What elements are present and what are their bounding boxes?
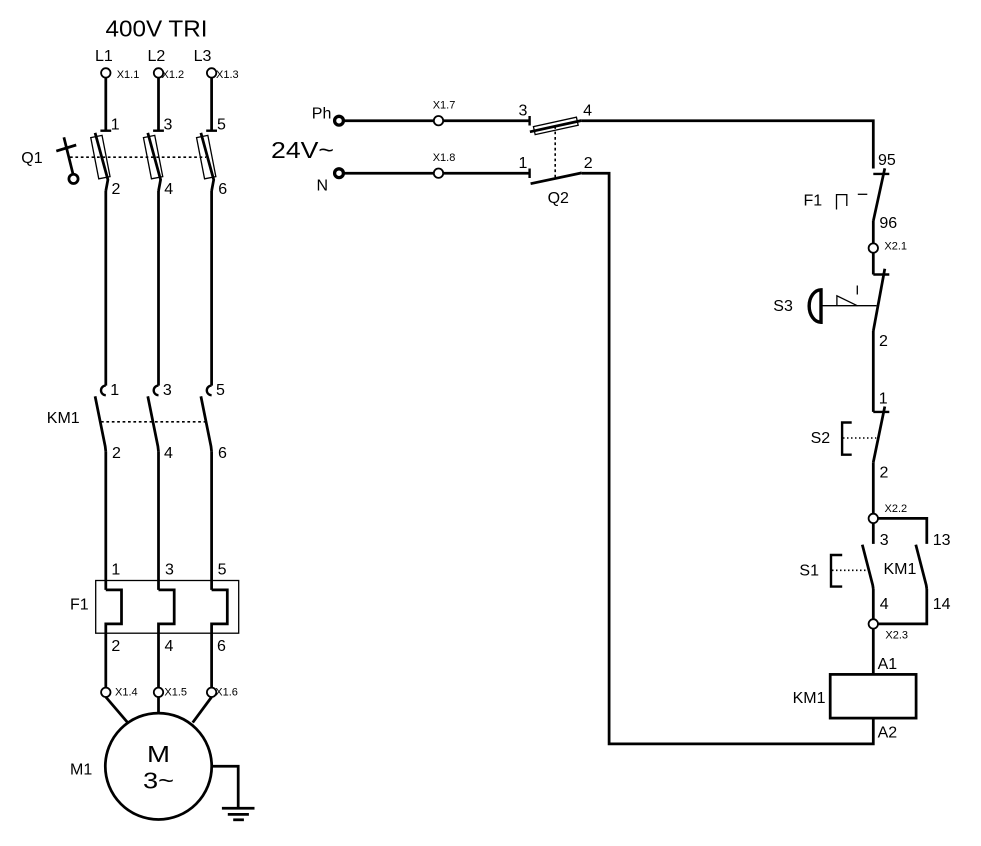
terminal X2.2 (869, 514, 878, 523)
svg-text:L1: L1 (95, 48, 113, 65)
svg-text:4: 4 (164, 445, 173, 462)
breaker Q1 pole 1 contact seat (100, 129, 111, 131)
pushbutton S2 actuator link (dotted) (843, 437, 876, 439)
pushbutton S2 blade (873, 407, 885, 463)
node Ph terminal (335, 116, 344, 125)
wire X1.4-motor (106, 697, 128, 723)
wire L1 Q1-KM1 (104, 191, 107, 386)
pushbutton S3 mushroom head (809, 290, 821, 323)
contact F1 95-96 blade (873, 168, 884, 220)
svg-text:Q1: Q1 (21, 150, 42, 167)
svg-text:400V TRI: 400V TRI (106, 16, 208, 42)
svg-text:1: 1 (110, 382, 119, 399)
pushbutton S2 seat (873, 411, 889, 413)
switch Q2 pole 1-2 blade (531, 173, 582, 184)
svg-text:95: 95 (878, 152, 896, 169)
svg-text:KM1: KM1 (47, 410, 80, 427)
svg-text:1: 1 (111, 562, 120, 579)
switch Q2 link (dashed) (554, 126, 556, 177)
wire S2 to X2.2 (872, 462, 875, 514)
svg-text:1: 1 (879, 390, 888, 407)
svg-text:2: 2 (584, 155, 593, 172)
pushbutton S3 blade (873, 269, 885, 331)
terminal X1.7 (434, 116, 443, 125)
contact F1 95-96 bar (858, 193, 868, 195)
terminal X2.1 (869, 243, 878, 252)
terminal X2.3 (869, 619, 878, 628)
wire S1 to X2.3 (872, 589, 875, 619)
contactor KM1 link (dashed) (101, 421, 206, 423)
svg-text:X1.4: X1.4 (115, 687, 138, 699)
svg-text:3: 3 (163, 382, 172, 399)
svg-text:A2: A2 (878, 724, 898, 741)
wire L1 F1-X1.4 (104, 633, 107, 687)
svg-text:X2.2: X2.2 (885, 503, 908, 515)
wire X2.3 to coil A1 (872, 629, 875, 675)
contactor KM1 pole 1 blade (95, 396, 106, 451)
svg-text:4: 4 (165, 638, 174, 655)
svg-text:4: 4 (583, 103, 592, 120)
pushbutton S1 blade (862, 545, 873, 589)
svg-text:2: 2 (112, 181, 121, 198)
pushbutton S1 actuator link (dotted) (832, 569, 867, 571)
svg-text:2: 2 (111, 638, 120, 655)
breaker Q1 pole 1 blade (95, 133, 108, 191)
node N terminal (335, 169, 344, 178)
contactor KM1 pole 2 seat arc (154, 386, 159, 396)
svg-text:13: 13 (933, 532, 951, 549)
svg-text:M1: M1 (70, 762, 92, 779)
breaker Q1 pole 2 contact seat (153, 129, 164, 131)
svg-text:S3: S3 (773, 298, 793, 315)
relay F1 box (96, 581, 239, 634)
terminal X1.1 (101, 68, 110, 77)
switch Q2 pole 1-2 contact seat (528, 169, 530, 179)
svg-text:2: 2 (112, 445, 121, 462)
contactor KM1 pole 3 seat arc (207, 386, 212, 396)
relay F1 pole 2 heater (159, 590, 175, 633)
svg-text:5: 5 (216, 382, 225, 399)
wire Ph to Q2 (344, 119, 529, 122)
svg-text:L2: L2 (148, 48, 166, 65)
wire S3 to S2 (872, 331, 875, 412)
relay F1 pole 3 heater (212, 590, 228, 633)
svg-text:14: 14 (933, 596, 951, 613)
breaker Q1 link (dashed) (70, 156, 206, 158)
terminal X1.2 (154, 68, 163, 77)
coil KM1 body (830, 674, 916, 718)
svg-text:4: 4 (880, 596, 889, 613)
wire X2.2 to S1 (872, 523, 875, 544)
pushbutton S3 actuator link (821, 305, 877, 307)
breaker Q1 pole 2 blade (148, 133, 161, 191)
terminal X1.6 (207, 688, 216, 697)
svg-text:N: N (317, 177, 329, 194)
svg-text:5: 5 (217, 116, 226, 133)
wire L3 KM1-F1 (210, 452, 213, 590)
wire motor-ground (212, 766, 239, 808)
svg-text:L3: L3 (194, 48, 212, 65)
contactor KM1 pole 1 seat arc (101, 386, 106, 396)
svg-text:6: 6 (218, 181, 227, 198)
svg-text:X1.8: X1.8 (433, 152, 456, 164)
wire L1 top (104, 78, 107, 131)
pushbutton S3 latch triangle (837, 296, 858, 306)
svg-text:5: 5 (218, 562, 227, 579)
wire N to Q2 (344, 172, 529, 175)
svg-text:S1: S1 (799, 562, 819, 579)
svg-text:2: 2 (879, 333, 888, 350)
wire X2.2 to KM1 13 (878, 518, 927, 544)
switch Q2 pole 3-4 contact seat (528, 116, 530, 126)
svg-text:F1: F1 (804, 192, 823, 209)
wire X1.5-motor (157, 697, 160, 713)
svg-text:KM1: KM1 (884, 561, 917, 578)
wire KM1 14 to X2.3 (878, 589, 927, 624)
wire Q2-4 to right rail (582, 121, 874, 169)
svg-text:X2.1: X2.1 (884, 240, 907, 252)
switch Q2 pole 3-4 fuse body (533, 117, 578, 134)
svg-text:M: M (147, 741, 170, 767)
wire L2 top (157, 78, 160, 131)
svg-text:6: 6 (218, 445, 227, 462)
pushbutton S3 latch tick (856, 286, 858, 295)
svg-text:3: 3 (164, 116, 173, 133)
breaker Q1 pole 3 fuse body (197, 135, 216, 178)
wire 96 to X2.1 (872, 221, 875, 244)
switch Q2 pole 3-4 blade (530, 121, 582, 132)
svg-text:4: 4 (164, 181, 173, 198)
wire L2 Q1-KM1 (157, 191, 160, 386)
svg-text:X1.3: X1.3 (216, 69, 239, 81)
svg-text:3: 3 (519, 103, 528, 120)
svg-text:A1: A1 (878, 656, 898, 673)
terminal X1.5 (154, 688, 163, 697)
terminal X1.8 (434, 169, 443, 178)
relay F1 pole 1 heater (106, 590, 122, 633)
wire coil A2 return to Q2-2 (582, 173, 874, 744)
breaker Q1 pole 1 fuse body (91, 135, 110, 178)
svg-text:X1.5: X1.5 (164, 687, 187, 699)
pushbutton S3 seat (873, 273, 889, 275)
breaker Q1 actuator (56, 137, 78, 183)
ground (222, 808, 255, 820)
wire L3 F1-X1.6 (210, 633, 213, 687)
svg-text:24V~: 24V~ (271, 137, 334, 163)
svg-text:F1: F1 (70, 597, 89, 614)
pushbutton S2 actuator bracket (842, 423, 852, 455)
contactor KM1 pole 2 blade (148, 396, 159, 451)
svg-text:S2: S2 (811, 430, 831, 447)
svg-text:Ph: Ph (312, 106, 332, 123)
svg-text:X1.7: X1.7 (433, 100, 456, 112)
svg-text:2: 2 (880, 465, 889, 482)
motor M1 body (105, 713, 211, 819)
svg-text:X1.2: X1.2 (162, 69, 185, 81)
contactor KM1 pole 3 blade (201, 396, 212, 451)
svg-text:96: 96 (879, 215, 897, 232)
pushbutton S1 actuator bracket (831, 555, 842, 587)
wire L3 Q1-KM1 (210, 191, 213, 386)
terminal X1.4 (101, 688, 110, 697)
svg-text:1: 1 (111, 116, 120, 133)
wire L2 KM1-F1 (157, 452, 160, 590)
breaker Q1 pole 2 fuse body (143, 135, 162, 178)
breaker Q1 pole 3 blade (201, 133, 214, 191)
breaker Q1 pole 3 contact seat (206, 129, 217, 131)
svg-text:X1.1: X1.1 (117, 69, 140, 81)
wire X2.1 to S3 (872, 253, 875, 275)
svg-text:3~: 3~ (143, 768, 174, 794)
svg-text:3: 3 (165, 562, 174, 579)
wire L2 F1-X1.5 (157, 633, 160, 687)
svg-text:X2.3: X2.3 (885, 630, 908, 642)
wire L1 KM1-F1 (104, 452, 107, 590)
contact KM1 13-14 blade (916, 545, 927, 589)
svg-text:KM1: KM1 (793, 690, 826, 707)
svg-text:Q2: Q2 (548, 190, 569, 207)
contact F1 95-96 thermal symbol (837, 195, 847, 210)
svg-text:1: 1 (519, 155, 528, 172)
svg-text:3: 3 (880, 532, 889, 549)
svg-text:6: 6 (217, 638, 226, 655)
svg-text:X1.6: X1.6 (215, 687, 238, 699)
wire X1.6-motor (193, 697, 212, 723)
terminal X1.3 (207, 68, 216, 77)
wire L3 top (210, 78, 213, 131)
contact F1 95-96 seat (873, 173, 889, 175)
